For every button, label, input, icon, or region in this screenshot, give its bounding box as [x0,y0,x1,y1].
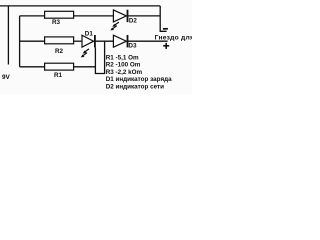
LED D1 [82,35,95,47]
resistor R3 [45,11,74,18]
socket plus mark [163,43,169,49]
svg-text:D1: D1 [85,30,94,37]
svg-text:D2 индикатор сети: D2 индикатор сети [106,84,164,91]
svg-text:R1 -5,1 Om: R1 -5,1 Om [106,54,139,61]
wire D2 output [128,15,161,17]
LED D1 arrows [81,49,89,58]
wire D1 to D3 [95,40,114,42]
svg-text:R2 -100 Om: R2 -100 Om [106,62,141,69]
svg-text:R1: R1 [54,72,63,79]
wire top rail [0,5,160,7]
resistor R1 [45,63,74,70]
wire R2 input [20,40,45,42]
wire R1 output [74,66,96,68]
svg-text:Гнездо для: Гнездо для [155,35,192,42]
svg-text:9V: 9V [2,74,11,81]
background [0,0,192,94]
wire R3 to D2 [74,15,114,17]
svg-text:R3: R3 [52,19,61,26]
wire R3 input [20,15,45,17]
resistor R2 [45,37,74,44]
LED D2 [113,10,127,22]
diode D3 [113,35,127,47]
wire left bus [19,16,21,67]
socket minus mark [163,28,168,30]
svg-text:R3 -2,2 kOm: R3 -2,2 kOm [106,69,143,76]
LED D2 arrows [110,22,119,30]
wire R2 to D1 [74,40,82,42]
wire D3 output [128,40,168,42]
wire R1 input [20,66,45,68]
wire R1 loop to D1-D3 junction [95,41,104,73]
svg-text:D3: D3 [128,42,137,49]
svg-text:D2: D2 [129,17,137,24]
wire battery stub [7,6,9,65]
svg-text:R2: R2 [55,48,64,55]
wire socket negative lead [160,6,166,31]
svg-text:D1 индикатор заряда: D1 индикатор заряда [106,76,172,83]
